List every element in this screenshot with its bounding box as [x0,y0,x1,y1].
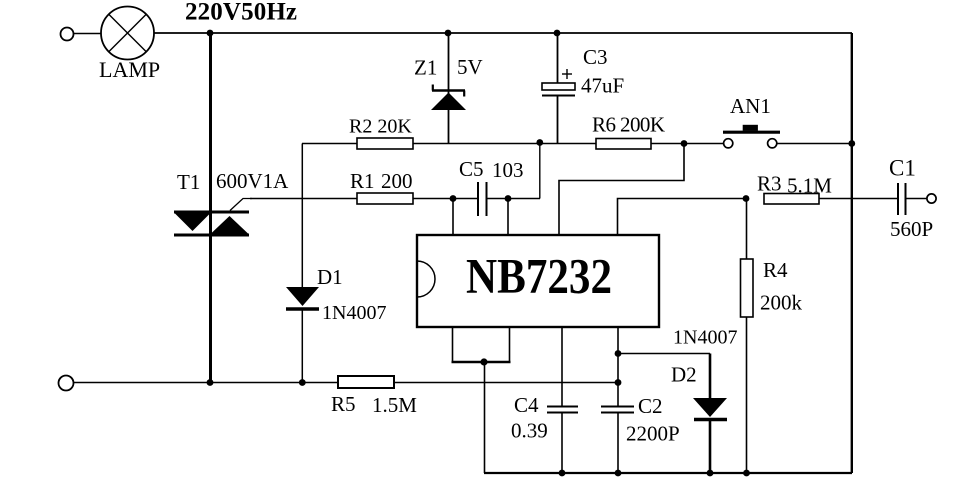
resistor R3 [764,194,819,205]
svg-text:D2: D2 [671,363,697,387]
wire bottom-left line [74,382,338,384]
wire riser to R2 line [539,143,541,199]
svg-text:C3: C3 [583,45,608,69]
wire R5 to C2 [394,382,618,384]
svg-text:AN1: AN1 [730,94,771,118]
terminal right [927,194,936,203]
pin top 3 wire [559,144,684,236]
node bottom T1 junction [207,379,214,386]
wire R2 line left segment [302,143,357,145]
svg-text:C1: C1 [889,156,916,181]
pin top 2 wire [507,199,509,236]
svg-text:R5: R5 [331,392,356,416]
resistor R2 [357,138,413,149]
label C5 103 [459,157,524,182]
pin top 4 wire [618,199,747,236]
wire right rail [851,33,853,473]
svg-text:D1: D1 [317,265,343,289]
wire R1 to C5 [413,198,477,200]
svg-text:103: 103 [492,158,524,182]
svg-text:1.5M: 1.5M [372,393,417,417]
wire gate to R1 [250,198,357,200]
node C2/D2 junction [615,350,622,357]
node C5/pin junction [505,195,512,202]
svg-text:5V: 5V [457,55,483,79]
svg-text:T1: T1 [177,170,200,194]
svg-text:C5: C5 [459,157,484,181]
svg-text:Z1: Z1 [414,56,437,80]
svg-text:R1: R1 [350,169,375,193]
svg-text:220V50Hz: 220V50Hz [185,0,297,26]
svg-text:LAMP: LAMP [99,57,160,82]
svg-text:200: 200 [381,169,413,193]
svg-text:C4: C4 [514,393,539,417]
pin bottom 3 wire / C4 branch [561,327,563,406]
pin top 1 wire [452,199,454,236]
node R6/pin riser junction [681,140,688,147]
svg-text:0.39: 0.39 [511,419,548,443]
zener Z1 [431,33,466,143]
wire R3 to C1 [819,198,898,200]
wire pin hook [452,361,511,363]
svg-text:200k: 200k [760,291,803,315]
node bottom C2 junction [615,470,622,477]
resistor R5 [338,376,394,388]
node right rail / AN1 junction [848,140,855,147]
resistor R1 [357,193,413,204]
triac T1 [174,199,252,236]
wire bottom rail [484,472,852,474]
lamp [101,7,154,60]
capacitor C3 [542,33,575,143]
wire terminal to lamp [74,33,101,35]
wire R2 to R6 [413,143,596,145]
svg-text:1N4007: 1N4007 [322,302,386,324]
node junction top at C3 [554,30,561,37]
terminal top-left [61,28,74,41]
pin bottom 4 wire / C2 branch [617,327,619,406]
node R1/C5 pin junction [450,195,457,202]
svg-text:560P: 560P [890,217,933,241]
node R3/R4 junction [743,195,750,202]
IC U1 NB7232 [417,235,659,327]
svg-text:5.1M: 5.1M [787,174,832,198]
svg-text:47uF: 47uF [581,74,624,98]
wire D2 branch horizontal [618,353,710,355]
svg-text:1N4007: 1N4007 [673,327,737,349]
svg-text:NB7232: NB7232 [466,248,612,304]
svg-text:R3: R3 [757,172,782,196]
wire top rail [154,32,852,34]
wire hook to bottom rail [484,362,486,473]
resistor R6 [596,139,651,150]
pin bottom 1 wire [452,327,454,362]
capacitor C1 [898,183,906,215]
diode D2 [693,354,727,474]
node junction top at Z1 [445,30,452,37]
svg-text:600V1A: 600V1A [216,169,289,193]
node bottom C4 junction [559,470,566,477]
node bottom R4 junction [743,470,750,477]
svg-text:R6 200K: R6 200K [592,113,665,137]
node bottom D1 junction [299,379,306,386]
capacitor C5 [478,182,487,216]
resistor R4 [741,199,754,474]
wire C5 right to riser [487,198,541,200]
switch AN1 [723,125,780,148]
svg-text:C2: C2 [638,394,663,418]
svg-text:R4: R4 [763,258,788,282]
node R2 line / C5 riser junction [536,139,543,146]
wire C1 to terminal [906,198,928,200]
capacitor C2 [601,407,634,474]
terminal bottom-left [59,376,74,391]
node R5/C2 junction [615,379,622,386]
capacitor C4 [547,407,578,474]
pin bottom 2 wire [509,327,511,362]
svg-text:R2 20K: R2 20K [349,116,412,138]
wire R6 to AN1 [651,143,724,145]
wire AN1 to right rail [777,143,852,145]
node bottom D2 junction [707,470,714,477]
node pin hook junction [480,358,487,365]
diode D1 [286,144,319,383]
node junction top at T1 [207,30,214,37]
svg-text:2200P: 2200P [626,422,680,446]
wire left main vertical [209,33,212,382]
